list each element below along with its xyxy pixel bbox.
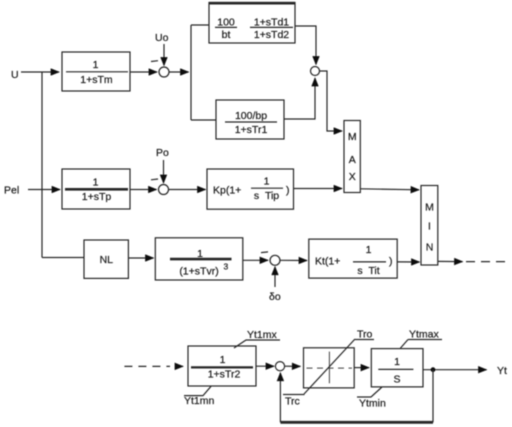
svg-text:s Tit: s Tit xyxy=(357,265,379,277)
svg-text:Yt1mx: Yt1mx xyxy=(247,329,278,341)
svg-text:bt: bt xyxy=(222,29,231,41)
svg-text:1: 1 xyxy=(366,244,372,256)
svg-text:Yt1mn: Yt1mn xyxy=(184,395,215,407)
svg-text:100: 100 xyxy=(217,17,235,29)
svg-text:1+sTr2: 1+sTr2 xyxy=(208,369,241,381)
svg-text:100/bp: 100/bp xyxy=(235,110,267,122)
svg-text:1+sTr1: 1+sTr1 xyxy=(235,124,268,136)
svg-text:1: 1 xyxy=(264,176,270,188)
svg-text:1: 1 xyxy=(93,59,99,71)
svg-text:1: 1 xyxy=(93,177,99,189)
svg-text:): ) xyxy=(389,256,393,268)
svg-text:δo: δo xyxy=(269,291,281,303)
svg-text:Kp(1+: Kp(1+ xyxy=(213,185,241,197)
svg-text:Tro: Tro xyxy=(357,329,373,341)
svg-text:M: M xyxy=(348,131,357,143)
svg-text:Uo: Uo xyxy=(155,32,169,44)
svg-text:1: 1 xyxy=(394,356,400,368)
svg-text:A: A xyxy=(349,154,356,166)
svg-text:): ) xyxy=(286,185,290,197)
svg-text:Po: Po xyxy=(156,147,169,159)
svg-text:Kt(1+: Kt(1+ xyxy=(315,256,340,268)
svg-text:U: U xyxy=(11,69,19,81)
svg-text:3: 3 xyxy=(224,262,229,272)
svg-text:S: S xyxy=(393,373,400,385)
svg-text:Yt: Yt xyxy=(497,365,507,377)
svg-text:1: 1 xyxy=(220,354,226,366)
svg-text:1+sTp: 1+sTp xyxy=(82,191,112,203)
svg-text:X: X xyxy=(349,171,356,183)
svg-text:I: I xyxy=(428,221,431,233)
svg-text:1: 1 xyxy=(197,248,203,260)
svg-text:Trc: Trc xyxy=(285,396,300,408)
svg-text:1+sTd2: 1+sTd2 xyxy=(254,29,289,41)
svg-text:1+sTm: 1+sTm xyxy=(80,74,113,86)
svg-text:(1+sTvr): (1+sTvr) xyxy=(179,266,218,278)
svg-text:s Tip: s Tip xyxy=(254,190,279,202)
svg-text:M: M xyxy=(425,202,434,214)
svg-text:N: N xyxy=(426,242,434,254)
svg-text:NL: NL xyxy=(100,254,114,266)
svg-text:Pel: Pel xyxy=(4,185,19,197)
svg-text:Ytmax: Ytmax xyxy=(409,329,440,341)
svg-text:Ytmin: Ytmin xyxy=(359,398,386,410)
svg-text:1+sTd1: 1+sTd1 xyxy=(254,17,289,29)
